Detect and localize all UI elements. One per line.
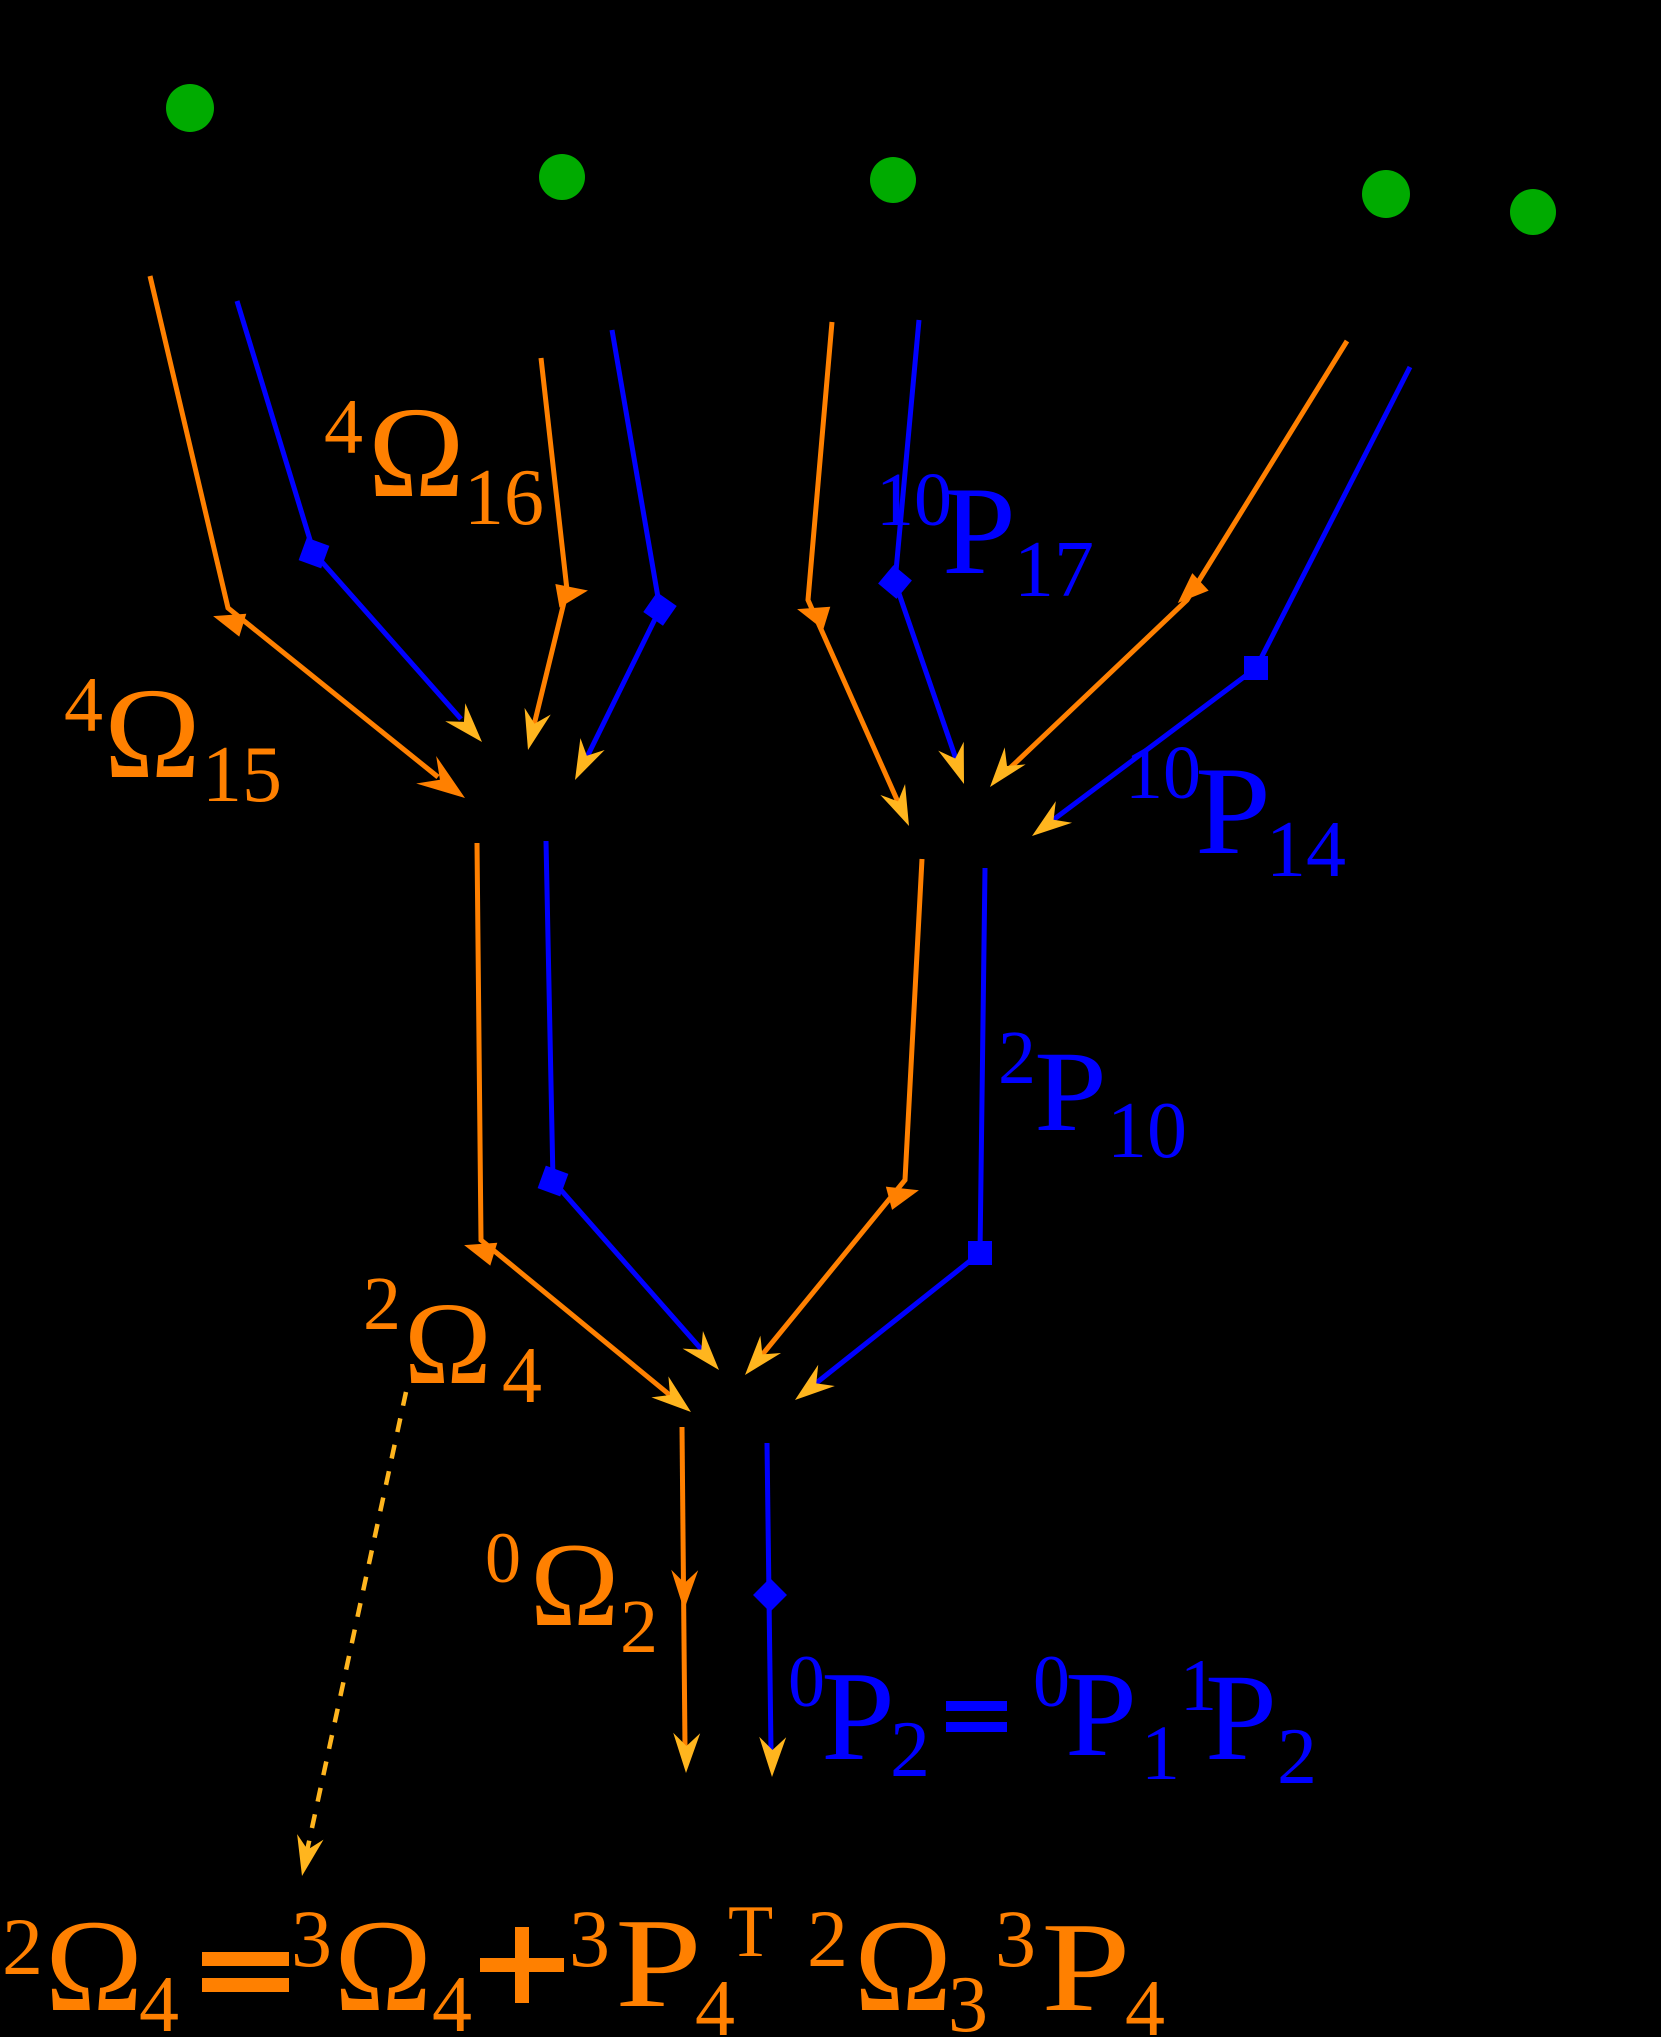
svg-text:10: 10 bbox=[876, 458, 952, 542]
leaf dot 1 (green) bbox=[166, 84, 214, 132]
dashed gold arrow from label 2-Omega-4 to formula bbox=[289, 1392, 406, 1879]
svg-text:3: 3 bbox=[948, 1961, 988, 2037]
svg-text:Ω: Ω bbox=[368, 381, 465, 525]
leaf dot 4 (green) bbox=[1362, 170, 1410, 218]
svg-text:3: 3 bbox=[569, 1893, 610, 1984]
wire orange from node B down bbox=[671, 1427, 701, 1773]
wire orange from leaf3 to node R bbox=[794, 322, 922, 831]
wire orange from node L to node B bbox=[461, 843, 700, 1422]
formula 2-Omega-4 = 3-Omega-4 + 3-P-4^T 2-Omega-3 3-P-4 (orange) bbox=[2, 1891, 1165, 2037]
svg-text:P: P bbox=[1195, 742, 1271, 881]
svg-text:Ω: Ω bbox=[334, 1892, 432, 2037]
wire blue from node B down bbox=[753, 1443, 787, 1777]
svg-text:Ω: Ω bbox=[404, 1278, 492, 1409]
label 2-Omega-4 (orange) bbox=[363, 1262, 542, 1420]
svg-text:Ω: Ω bbox=[45, 1892, 143, 2037]
label 4-Omega-15 (orange) bbox=[64, 661, 282, 819]
label 10-P-17 (blue) bbox=[876, 458, 1094, 614]
label 0-Omega-2 (orange) bbox=[485, 1518, 658, 1669]
svg-text:15: 15 bbox=[202, 731, 282, 819]
svg-text:Ω: Ω bbox=[854, 1892, 952, 2037]
svg-text:4: 4 bbox=[324, 383, 363, 470]
svg-text:16: 16 bbox=[464, 454, 544, 542]
leaf dot 2 (green) bbox=[539, 154, 585, 200]
wire blue from leaf3 to node R bbox=[878, 320, 977, 788]
wire orange from node R to node B bbox=[735, 859, 922, 1384]
label 4-Omega-16 (orange) bbox=[324, 381, 544, 542]
svg-text:4: 4 bbox=[502, 1332, 542, 1420]
svg-text:10: 10 bbox=[1125, 731, 1201, 815]
wire blue from node L to node B bbox=[538, 841, 730, 1379]
svg-text:1: 1 bbox=[1141, 1709, 1180, 1796]
svg-text:4: 4 bbox=[139, 1961, 179, 2037]
wire blue from node R to node B bbox=[787, 868, 992, 1411]
svg-text:2: 2 bbox=[890, 1706, 930, 1794]
svg-text:3: 3 bbox=[995, 1893, 1036, 1984]
wire blue from leaf2 to node L bbox=[563, 330, 677, 786]
svg-text:P: P bbox=[1205, 1649, 1277, 1786]
label 10-P-14 (blue) bbox=[1125, 731, 1346, 894]
svg-text:2: 2 bbox=[807, 1893, 848, 1984]
svg-text:2: 2 bbox=[1277, 1713, 1317, 1801]
svg-text:2: 2 bbox=[620, 1585, 658, 1669]
svg-text:Ω: Ω bbox=[104, 662, 201, 806]
svg-text:17: 17 bbox=[1014, 526, 1094, 614]
svg-text:Ω: Ω bbox=[530, 1518, 619, 1651]
label 2-P-10 (blue) bbox=[998, 1016, 1187, 1175]
svg-text:P: P bbox=[942, 462, 1016, 601]
wire blue from leaf5 to node R bbox=[1024, 367, 1410, 847]
svg-text:2: 2 bbox=[2, 1901, 43, 1992]
svg-text:14: 14 bbox=[1266, 806, 1346, 894]
wire orange from leaf4 to node R bbox=[980, 341, 1347, 795]
leaf dot 3 (green) bbox=[870, 157, 916, 203]
svg-text:P: P bbox=[1041, 1896, 1131, 2037]
svg-text:P: P bbox=[1065, 1647, 1137, 1782]
svg-text:P: P bbox=[615, 1892, 702, 2034]
svg-text:2: 2 bbox=[363, 1262, 401, 1346]
svg-text:4: 4 bbox=[432, 1961, 472, 2037]
svg-text:P: P bbox=[821, 1645, 895, 1787]
svg-text:4: 4 bbox=[64, 661, 103, 748]
svg-text:3: 3 bbox=[291, 1893, 332, 1984]
leaf dot 5 (green) bbox=[1510, 189, 1556, 235]
wire orange from leaf2 to node L bbox=[515, 358, 590, 753]
svg-text:4: 4 bbox=[695, 1965, 735, 2037]
svg-text:4: 4 bbox=[1125, 1965, 1165, 2037]
svg-text:0: 0 bbox=[788, 1641, 825, 1723]
svg-text:10: 10 bbox=[1107, 1087, 1187, 1175]
label 0-P-2 = 0-P-1 1-P-2 (blue) bbox=[788, 1641, 1317, 1801]
wire blue from leaf1 to node L bbox=[237, 301, 492, 751]
svg-text:2: 2 bbox=[998, 1016, 1036, 1100]
svg-text:P: P bbox=[1034, 1028, 1107, 1155]
wire orange from leaf1 to node L bbox=[150, 276, 475, 812]
svg-text:0: 0 bbox=[485, 1518, 521, 1598]
svg-text:T: T bbox=[728, 1891, 773, 1973]
